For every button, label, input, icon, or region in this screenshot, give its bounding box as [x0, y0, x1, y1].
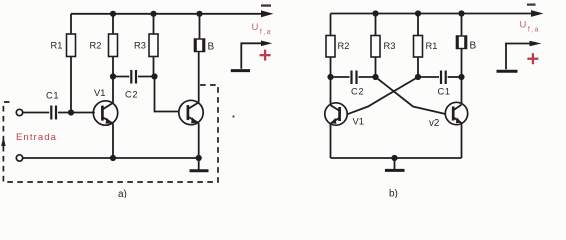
wire bottom rail (a) — [23, 157, 199, 159]
node rail-B (b) — [458, 10, 464, 16]
wire R1 to V1 base (b) — [347, 77, 418, 114]
node R3-C2 (b) — [372, 74, 378, 80]
node R1-base (a) — [68, 109, 74, 115]
svg-text:Entrada: Entrada — [16, 132, 57, 143]
node B-C1 (b) — [458, 74, 464, 80]
node rail-R3 (b) — [372, 10, 378, 16]
label minus (a) — [261, 4, 271, 6]
output wire plus (b) — [506, 41, 542, 70]
capacitor C2 (b) — [331, 71, 376, 85]
ground output (a) — [231, 69, 250, 72]
svg-text:B: B — [208, 41, 215, 52]
lamp B (b) — [456, 14, 467, 78]
resistor R2 — [109, 14, 118, 77]
node emitter V1 (a) — [110, 155, 116, 161]
output wire plus (a) — [241, 41, 272, 69]
svg-text:R2: R2 — [338, 41, 350, 51]
svg-text:C1: C1 — [438, 87, 451, 97]
lamp B (a) — [194, 14, 205, 52]
svg-text:Uf,a: Uf,a — [520, 20, 540, 34]
node R3-C2 (a) — [151, 73, 157, 79]
node rail-B (a) — [196, 11, 202, 17]
svg-text:C1: C1 — [46, 91, 59, 101]
transistor V1 (a) — [93, 77, 117, 159]
node rail-R3 (a) — [150, 11, 156, 17]
svg-text:R3: R3 — [384, 41, 396, 51]
svg-text:Uf,a: Uf,a — [252, 22, 272, 36]
svg-text:v2: v2 — [429, 118, 439, 129]
label plus (b) — [527, 53, 538, 64]
svg-text:C2: C2 — [351, 87, 364, 97]
resistor R1 — [67, 14, 76, 113]
svg-text:R1: R1 — [426, 41, 438, 51]
node rail-R1 (b) — [415, 10, 421, 16]
node emitter V2 (a) — [196, 155, 202, 161]
arrow supply rail (a) — [261, 10, 274, 17]
svg-text:b): b) — [389, 189, 398, 199]
svg-text:R1: R1 — [51, 40, 63, 50]
resistor R3 — [149, 14, 158, 77]
node rail-R2 (a) — [110, 11, 116, 17]
transistor V2 (a) — [179, 52, 203, 158]
wire bottom rail (b) — [331, 157, 462, 159]
input terminal upper — [16, 109, 22, 115]
wire top supply rail (b) — [331, 13, 533, 15]
svg-text:C2: C2 — [125, 90, 138, 100]
svg-text:a): a) — [118, 189, 127, 198]
capacitor C1 (b) — [418, 71, 462, 85]
label minus (b) — [527, 4, 536, 6]
wire R3 to V2 base (b) — [376, 77, 446, 114]
resistor R1 (b) — [414, 14, 423, 78]
resistor R3 (b) — [371, 14, 380, 78]
node ground (b) — [391, 155, 397, 161]
ground (b) — [385, 158, 405, 170]
label plus (a) — [260, 50, 271, 61]
arrow on dashed border (a) — [1, 137, 5, 147]
ground (a) — [190, 158, 209, 171]
node R2-C2 (b) — [327, 74, 333, 80]
svg-text:B: B — [470, 40, 477, 51]
capacitor C1 (a) — [23, 106, 95, 120]
dashed enclosure (a) — [3, 85, 218, 182]
wire top supply rail (a) — [71, 13, 262, 15]
transistor V1 (b) — [325, 77, 347, 158]
ground output (b) — [497, 70, 518, 73]
svg-text:R2: R2 — [90, 40, 102, 50]
input terminal lower — [16, 155, 22, 161]
svg-text:V1: V1 — [353, 117, 364, 127]
arrow supply rail (b) — [531, 10, 544, 17]
capacitor C2 (a) — [113, 70, 155, 84]
resistor R2 (b) — [326, 14, 335, 78]
transistor V2 (b) — [445, 77, 467, 158]
stray mark — [232, 115, 234, 117]
svg-text:V1: V1 — [94, 88, 105, 98]
node R2-C2 (a) — [110, 73, 116, 79]
node R1-C1 (b) — [415, 74, 421, 80]
svg-text:R3: R3 — [134, 40, 146, 50]
wire R3 to V2 base (a) — [155, 77, 180, 112]
